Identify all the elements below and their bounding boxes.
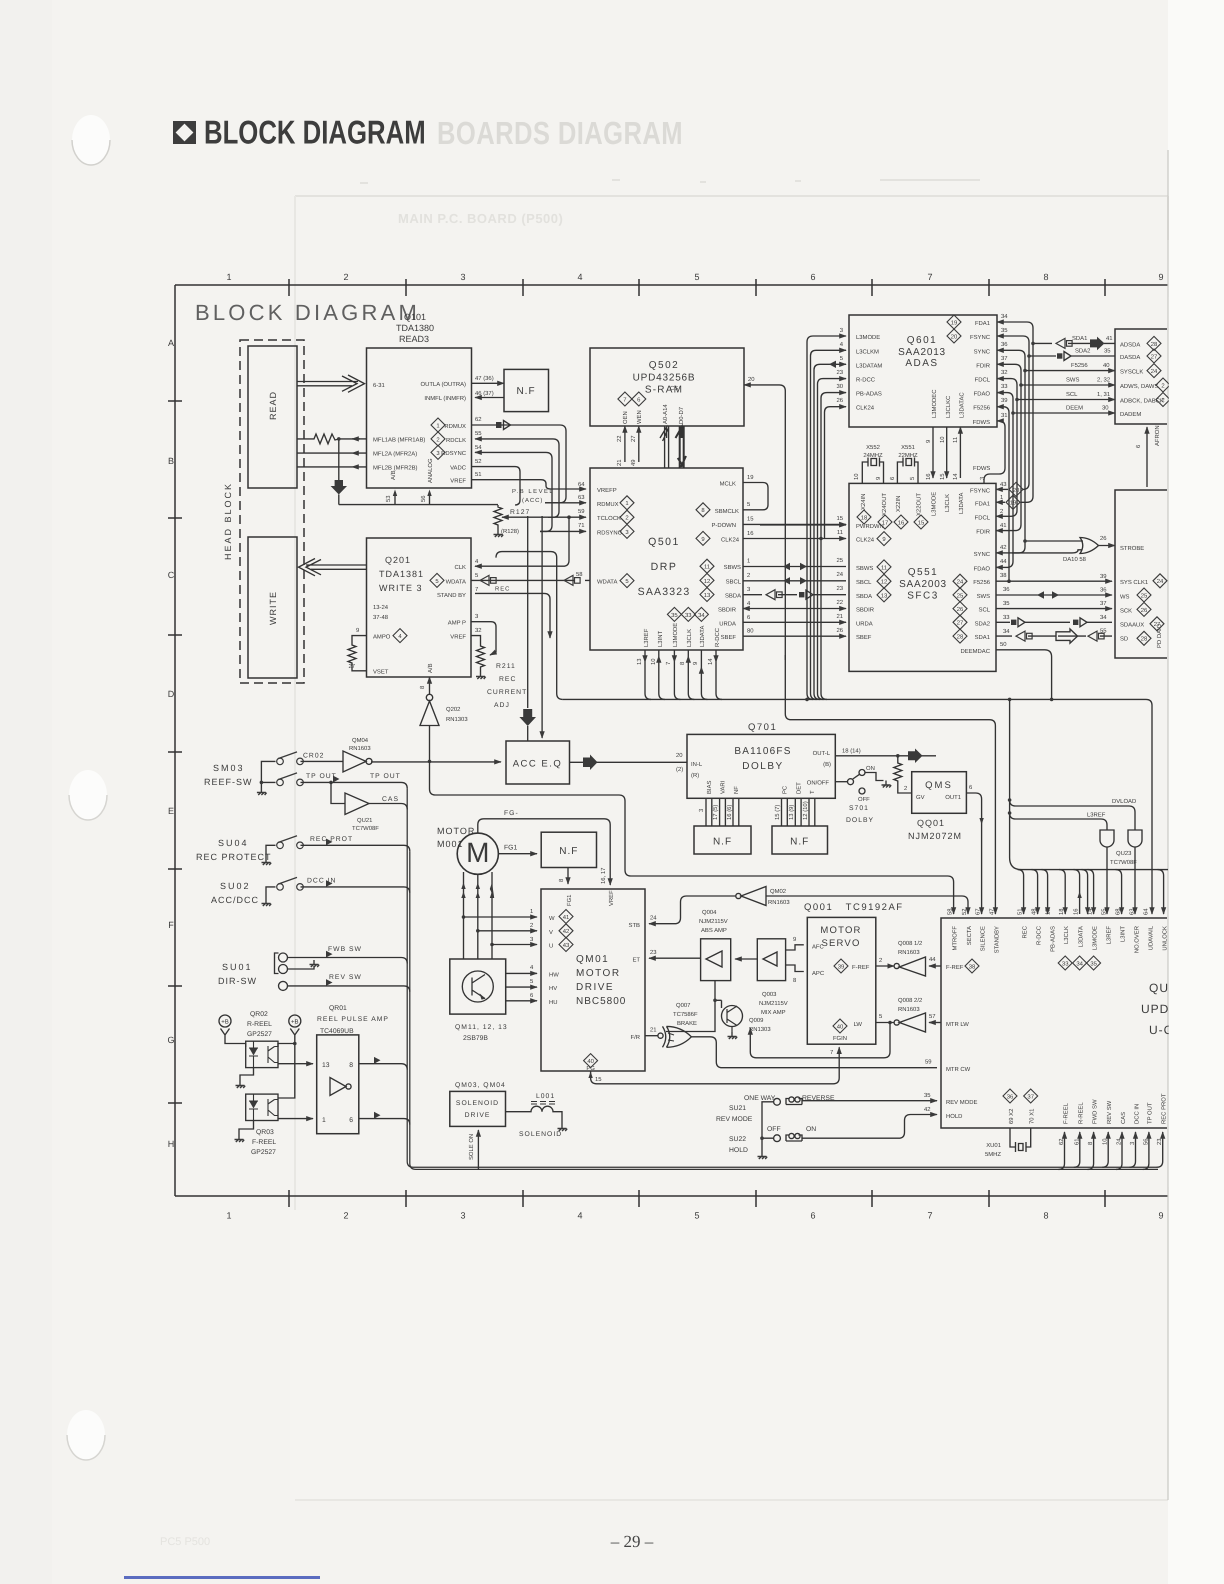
svg-text:NO.OVER: NO.OVER (1134, 926, 1141, 953)
wire SWS into ADWS (1021, 384, 1115, 386)
svg-text:7: 7 (927, 272, 932, 282)
svg-text:PG: PG (586, 1065, 595, 1072)
svg-text:47 (36): 47 (36) (475, 375, 494, 382)
head block dashed enclosure (240, 340, 304, 683)
switch S701 dolby (835, 781, 847, 783)
svg-text:57: 57 (929, 1013, 936, 1020)
AND gate QU23a (1100, 830, 1114, 847)
svg-text:SU21: SU21 (729, 1105, 746, 1112)
svg-text:22: 22 (616, 435, 623, 442)
svg-text:REC PROTECT: REC PROTECT (196, 852, 272, 862)
svg-text:DOLBY: DOLBY (846, 817, 874, 824)
svg-text:N.F: N.F (516, 386, 535, 397)
svg-text:QM02: QM02 (770, 888, 786, 895)
svg-text:DADEM: DADEM (1120, 411, 1141, 418)
svg-text:2: 2 (343, 1210, 348, 1220)
svg-text:URDA: URDA (719, 620, 736, 627)
svg-text:SOLENOID: SOLENOID (519, 1131, 562, 1138)
IC QM01 MOTOR DRIVE NBC5800 (541, 889, 645, 1071)
svg-text:ON: ON (806, 1126, 816, 1133)
svg-text:51: 51 (475, 471, 482, 478)
svg-text:20: 20 (748, 376, 755, 383)
wire W (464, 916, 538, 918)
svg-text:36: 36 (1003, 586, 1010, 593)
svg-text:33: 33 (1001, 383, 1008, 390)
svg-text:FSYNC: FSYNC (970, 487, 991, 494)
svg-text:SAA2013: SAA2013 (898, 347, 946, 358)
svg-text:RDCLK: RDCLK (446, 437, 466, 444)
gate output wires (1106, 847, 1108, 914)
svg-text:26: 26 (836, 397, 843, 404)
svg-text:TCLOCK: TCLOCK (597, 515, 621, 522)
svg-text:6-31: 6-31 (373, 382, 385, 389)
svg-text:CLK: CLK (455, 564, 467, 571)
ghost ruler (295, 180, 1168, 196)
svg-text:QMS: QMS (925, 780, 953, 791)
svg-text:UDAVAIL: UDAVAIL (1148, 925, 1155, 950)
svg-text:38: 38 (1000, 572, 1007, 579)
svg-text:CAS: CAS (1120, 1112, 1127, 1124)
svg-text:REC: REC (495, 586, 510, 593)
svg-text:RN1603: RN1603 (898, 949, 920, 956)
svg-text:SERVO: SERVO (821, 938, 860, 949)
svg-text:SU02: SU02 (220, 881, 251, 891)
svg-text:PC5 P500: PC5 P500 (160, 1536, 210, 1548)
svg-text:REV MODE: REV MODE (716, 1116, 753, 1123)
svg-text:16: 16 (747, 530, 754, 537)
svg-text:PB-ADAS: PB-ADAS (856, 391, 882, 398)
svg-text:CAS: CAS (382, 796, 399, 803)
svg-text:40: 40 (837, 1023, 844, 1030)
svg-text:L3CLK: L3CLK (944, 494, 951, 512)
IC Q551 SAA2003 SFC3 (849, 483, 996, 671)
svg-text:WEN: WEN (636, 410, 643, 424)
motor phase wires (464, 872, 493, 959)
svg-text:Q008 2/2: Q008 2/2 (898, 997, 922, 1004)
svg-text:55: 55 (1100, 628, 1107, 635)
svg-text:WS: WS (1120, 593, 1130, 600)
wire Q202 junction to MTROFF via VREF row (430, 761, 954, 914)
svg-text:54: 54 (475, 444, 482, 451)
right pin wires (996, 488, 1008, 490)
svg-text:35: 35 (1104, 348, 1111, 355)
wire opto1 to pin13 (278, 1063, 313, 1065)
power +B right (289, 1015, 301, 1027)
svg-text:44: 44 (929, 956, 936, 963)
svg-text:2: 2 (879, 957, 882, 964)
svg-text:34: 34 (1100, 614, 1107, 621)
svg-text:70 X1: 70 X1 (1029, 1109, 1036, 1124)
svg-text:5MHZ: 5MHZ (985, 1151, 1001, 1158)
svg-text:DEEMDAC: DEEMDAC (961, 648, 991, 655)
wire INMFL from NF (475, 397, 504, 399)
right pin wires to bus (997, 322, 1033, 502)
svg-text:61: 61 (1073, 1138, 1080, 1145)
wire P-DOWN (743, 523, 846, 525)
svg-text:24: 24 (1116, 1138, 1123, 1145)
svg-text:SU22: SU22 (729, 1136, 746, 1143)
svg-text:SYNC: SYNC (974, 551, 991, 558)
wire RDMUX out (472, 425, 567, 503)
diamonds 33 34 35 (1058, 956, 1072, 970)
svg-text:36: 36 (1001, 341, 1008, 348)
svg-text:18 (14): 18 (14) (842, 748, 861, 755)
svg-text:24: 24 (1157, 578, 1164, 585)
svg-text:R-REEL: R-REEL (1078, 1102, 1085, 1124)
svg-text:PWRDWN: PWRDWN (856, 523, 884, 530)
svg-text:8: 8 (1043, 1210, 1048, 1220)
svg-text:QR01: QR01 (329, 1005, 347, 1012)
optocoupler QR03 (246, 1094, 278, 1120)
svg-text:9: 9 (1158, 272, 1163, 282)
svg-text:BRAKE: BRAKE (677, 1020, 697, 1027)
svg-text:21: 21 (650, 1027, 657, 1034)
svg-text:QM04: QM04 (352, 737, 369, 744)
wire AFC (786, 945, 804, 950)
svg-text:1: 1 (226, 1210, 231, 1220)
svg-text:TC4069UB: TC4069UB (320, 1028, 354, 1035)
resistor AMPO-VSET (348, 636, 367, 671)
svg-text:41: 41 (1000, 522, 1007, 529)
svg-text:DRIVE: DRIVE (576, 982, 614, 993)
svg-text:ON: ON (866, 765, 875, 772)
diamonds 36 37 (1003, 1089, 1017, 1103)
svg-text:SWS: SWS (977, 593, 990, 600)
diamonds left (620, 496, 634, 510)
wire OUTLA to NF (472, 382, 505, 384)
svg-text:37: 37 (1027, 1093, 1034, 1100)
svg-text:GV: GV (916, 794, 925, 801)
svg-text:15: 15 (747, 516, 754, 523)
svg-text:– 29 –: – 29 – (610, 1532, 654, 1551)
wire HV (506, 986, 537, 988)
svg-text:L3DATAC: L3DATAC (958, 392, 965, 418)
IC Q601 SAA2013 ADAS (849, 315, 997, 427)
svg-text:9: 9 (692, 662, 699, 665)
svg-text:DET: DET (795, 782, 802, 794)
ground R127 (494, 530, 504, 537)
svg-text:1: 1 (1000, 494, 1003, 501)
svg-text:SOLE ON: SOLE ON (468, 1134, 475, 1160)
ACC EQ block (506, 741, 570, 784)
wire SDA1 into ADSDA (1033, 342, 1115, 344)
svg-text:CLK24: CLK24 (856, 537, 875, 544)
wire XOR out to MTR CW (691, 1037, 937, 1068)
svg-text:R-REEL: R-REEL (247, 1021, 272, 1028)
svg-text:12 (10): 12 (10) (802, 801, 809, 820)
svg-text:8: 8 (349, 1062, 353, 1069)
svg-text:QM11, 12, 13: QM11, 12, 13 (455, 1024, 508, 1031)
svg-text:13: 13 (881, 592, 888, 599)
wire DEEMDAC loop (996, 650, 1052, 700)
svg-text:OFF: OFF (858, 796, 870, 803)
svg-text:L3DATAM: L3DATAM (856, 362, 882, 369)
svg-text:VREF: VREF (608, 890, 615, 906)
svg-text:2: 2 (747, 572, 750, 579)
svg-text:27: 27 (630, 435, 637, 442)
svg-text:GP2527: GP2527 (251, 1149, 276, 1156)
diamond 1 (431, 418, 445, 432)
svg-text:SILENCE: SILENCE (980, 926, 987, 951)
svg-text:MTR CW: MTR CW (946, 1066, 971, 1073)
svg-text:URDA: URDA (856, 620, 873, 627)
svg-text:L3CLKM: L3CLKM (856, 348, 879, 355)
svg-text:MOTOR: MOTOR (576, 968, 621, 979)
svg-text:TP OUT: TP OUT (1147, 1102, 1154, 1124)
svg-text:F/R: F/R (631, 1034, 641, 1041)
svg-text:63: 63 (578, 494, 585, 501)
svg-text:FDWS: FDWS (973, 465, 990, 472)
svg-text:ONE WAY: ONE WAY (744, 1095, 776, 1102)
svg-text:L3CLKC: L3CLKC (945, 395, 952, 418)
diamond 2 (431, 432, 445, 446)
svg-text:VREF: VREF (450, 634, 466, 641)
svg-text:12: 12 (704, 578, 711, 585)
svg-text:FDIR: FDIR (976, 529, 990, 536)
svg-text:1: 1 (226, 272, 231, 282)
svg-text:BIAS: BIAS (706, 781, 713, 794)
svg-text:35: 35 (1090, 960, 1097, 967)
svg-text:N.F: N.F (790, 837, 809, 848)
svg-text:55: 55 (475, 430, 482, 437)
svg-text:MFL2A (MFR2A): MFL2A (MFR2A) (373, 451, 417, 458)
svg-text:Q008 1/2: Q008 1/2 (898, 940, 922, 947)
svg-text:WDATA: WDATA (446, 579, 466, 586)
svg-text:10: 10 (1102, 1138, 1109, 1145)
svg-text:2: 2 (343, 272, 348, 282)
svg-text:15: 15 (595, 1076, 602, 1083)
svg-text:SBWS: SBWS (724, 564, 741, 571)
svg-text:FG1: FG1 (566, 895, 573, 906)
svg-text:37: 37 (1001, 355, 1008, 362)
wire HOLD (802, 1115, 937, 1139)
svg-text:35: 35 (1003, 600, 1010, 607)
svg-text:SOLENOID: SOLENOID (456, 1100, 499, 1107)
svg-text:35: 35 (671, 612, 678, 619)
punch holes (72, 115, 110, 165)
svg-text:NJM2115V: NJM2115V (759, 1000, 788, 1007)
IC Q101 TDA1380 READ3 (367, 348, 472, 488)
svg-text:RN1303: RN1303 (446, 716, 468, 723)
svg-text:ADSDA: ADSDA (1120, 341, 1140, 348)
node junction (337, 437, 341, 441)
svg-text:5: 5 (694, 272, 699, 282)
svg-text:TC7W08F: TC7W08F (1110, 859, 1137, 866)
svg-text:X24OUT: X24OUT (881, 493, 888, 516)
svg-text:STB: STB (629, 922, 641, 929)
svg-text:FDA1: FDA1 (975, 500, 990, 507)
ADC/DAC block top right (cut at page edge) (1115, 329, 1167, 424)
svg-text:OFF: OFF (767, 1126, 781, 1133)
svg-text:HEAD BLOCK: HEAD BLOCK (223, 482, 233, 560)
svg-text:SECTA: SECTA (966, 926, 973, 945)
svg-text:Q001 TC9192AF: Q001 TC9192AF (804, 902, 904, 913)
svg-text:+B: +B (291, 1019, 299, 1026)
svg-text:A/B: A/B (390, 470, 397, 480)
svg-text:1: 1 (322, 1117, 326, 1124)
svg-text:ADAS: ADAS (905, 358, 938, 369)
svg-text:Q551: Q551 (908, 567, 938, 578)
svg-text:32: 32 (1001, 369, 1008, 376)
svg-text:D0-D7: D0-D7 (678, 407, 685, 424)
svg-text:SBCL: SBCL (726, 578, 742, 585)
svg-text:FG-: FG- (504, 810, 519, 817)
svg-text:24: 24 (836, 571, 843, 578)
svg-text:VSET: VSET (373, 669, 389, 676)
svg-text:11: 11 (881, 564, 887, 571)
svg-text:M: M (466, 837, 489, 868)
svg-text:(R): (R) (691, 772, 699, 779)
svg-text:9: 9 (1158, 1210, 1163, 1220)
svg-text:37-48: 37-48 (373, 614, 389, 621)
svg-text:L3CLK: L3CLK (1063, 926, 1070, 944)
svg-text:10: 10 (939, 436, 946, 443)
svg-text:CLK24: CLK24 (721, 536, 740, 543)
svg-text:34: 34 (1076, 960, 1083, 967)
svg-text:WDATA: WDATA (597, 579, 617, 586)
wire MFL2B (297, 466, 367, 468)
svg-text:NJM2072M: NJM2072M (908, 831, 962, 841)
read head (248, 346, 297, 488)
svg-text:HV: HV (549, 985, 557, 992)
svg-text:L3DATA: L3DATA (958, 493, 965, 514)
svg-text:48: 48 (1031, 908, 1038, 915)
svg-text:21: 21 (836, 613, 843, 620)
svg-text:X22IN: X22IN (895, 496, 902, 512)
diamond 5 (430, 573, 444, 587)
svg-text:ABS AMP: ABS AMP (701, 927, 727, 934)
left pin wires curving down (807, 336, 846, 699)
svg-text:43: 43 (563, 942, 570, 949)
wire V (478, 930, 537, 932)
svg-text:44: 44 (1000, 558, 1007, 565)
svg-text:26: 26 (1100, 535, 1107, 542)
svg-text:9: 9 (875, 477, 882, 480)
svg-text:OUTLA (OUTRA): OUTLA (OUTRA) (421, 381, 467, 388)
svg-text:L3DATA: L3DATA (699, 626, 706, 647)
svg-text:18: 18 (861, 514, 868, 521)
svg-text:SBMCLK: SBMCLK (715, 508, 739, 515)
svg-text:PC: PC (782, 785, 789, 794)
svg-text:READ3: READ3 (399, 334, 429, 344)
svg-text:L3REF: L3REF (1087, 812, 1106, 819)
svg-text:16: 16 (1073, 908, 1080, 915)
svg-text:40: 40 (587, 1058, 594, 1065)
svg-text:C: C (168, 570, 175, 580)
svg-text:SAA2003: SAA2003 (899, 579, 947, 590)
svg-text:3: 3 (460, 272, 465, 282)
wire U (492, 944, 537, 946)
svg-text:F5256: F5256 (973, 405, 990, 412)
wire FWB SW (288, 958, 408, 964)
svg-text:FDWS: FDWS (973, 419, 990, 426)
wire pin6 to F-REEL (359, 1119, 410, 1125)
optocoupler QR02 (246, 1041, 278, 1067)
svg-text:56: 56 (420, 495, 427, 502)
svg-text:VREFP: VREFP (597, 487, 617, 494)
svg-text:BA1106FS: BA1106FS (734, 746, 791, 757)
svg-text:RDMUX: RDMUX (597, 501, 619, 508)
svg-text:Q101: Q101 (404, 312, 426, 322)
svg-text:25: 25 (957, 592, 964, 599)
svg-text:SYNC: SYNC (974, 348, 991, 355)
svg-text:Q201: Q201 (385, 555, 411, 565)
microcontroller QU01 UPD78 U-COM (cut at page edge) (941, 918, 1167, 1128)
svg-text:N.F: N.F (713, 837, 732, 848)
svg-text:A0-A14: A0-A14 (662, 404, 669, 424)
svg-text:35: 35 (1001, 327, 1008, 334)
buffer QU21 TC7W08F (331, 782, 345, 803)
svg-text:REV MODE: REV MODE (946, 1099, 977, 1106)
svg-text:XU01: XU01 (986, 1142, 1001, 1149)
svg-text:AMPO: AMPO (373, 634, 391, 641)
svg-text:N.F: N.F (559, 846, 578, 857)
svg-text:L3CLK: L3CLK (686, 629, 693, 647)
svg-text:27: 27 (348, 663, 355, 670)
svg-text:FWB SW: FWB SW (328, 946, 362, 953)
svg-text:PD DAIO: PD DAIO (1156, 623, 1163, 648)
svg-text:53: 53 (385, 495, 392, 502)
svg-text:62: 62 (1058, 1138, 1065, 1145)
svg-text:62: 62 (475, 416, 482, 423)
wire SBWS (743, 566, 846, 568)
svg-text:23: 23 (836, 585, 843, 592)
svg-text:DRIVE: DRIVE (465, 1112, 491, 1119)
svg-text:FGIN: FGIN (833, 1035, 847, 1042)
svg-text:REV SW: REV SW (329, 974, 362, 981)
svg-text:SCK: SCK (1120, 607, 1132, 614)
svg-text:HU: HU (549, 999, 558, 1006)
svg-text:X22OUT: X22OUT (916, 493, 923, 516)
power +B left (219, 1015, 231, 1027)
svg-text:INMFL (INMFR): INMFL (INMFR) (424, 395, 466, 402)
svg-text:71: 71 (578, 522, 585, 529)
wire opto2 to pin1 (278, 1118, 313, 1120)
svg-text:39: 39 (1100, 573, 1107, 580)
svg-text:SAA3323: SAA3323 (638, 586, 691, 598)
wire F5256 into SYSCLK (1025, 370, 1115, 372)
svg-text:NBC5800: NBC5800 (576, 996, 626, 1007)
svg-text:42: 42 (1000, 544, 1007, 551)
svg-text:FWD SW: FWD SW (1091, 1099, 1098, 1124)
L3 bus drop wires (645, 650, 651, 699)
svg-text:41: 41 (563, 914, 570, 921)
svg-text:23: 23 (836, 369, 843, 376)
svg-text:W: W (549, 915, 555, 922)
svg-text:2: 2 (530, 922, 533, 929)
svg-text:11: 11 (952, 437, 959, 443)
svg-text:6: 6 (810, 272, 815, 282)
svg-text:RN1603: RN1603 (898, 1006, 920, 1013)
svg-text:SM03: SM03 (213, 763, 245, 773)
transistor Q202 RN1303 (429, 677, 431, 694)
OR gate strobe (1080, 538, 1099, 554)
analog bus A/B + ANALOG pins (339, 492, 498, 505)
svg-text:32: 32 (475, 627, 482, 634)
svg-text:33: 33 (685, 612, 692, 619)
svg-text:DA10 58: DA10 58 (1063, 556, 1087, 563)
svg-text:REC: REC (1022, 925, 1029, 938)
top ruler (175, 284, 1168, 286)
svg-text:14: 14 (952, 473, 959, 480)
svg-text:TC7586F: TC7586F (673, 1011, 698, 1018)
svg-text:8: 8 (1043, 272, 1048, 282)
svg-text:QQ01: QQ01 (917, 818, 945, 828)
svg-text:QU23: QU23 (1116, 850, 1132, 857)
svg-text:L3REF: L3REF (1106, 926, 1113, 945)
svg-text:7: 7 (665, 662, 672, 665)
filter N.F right (772, 826, 828, 854)
